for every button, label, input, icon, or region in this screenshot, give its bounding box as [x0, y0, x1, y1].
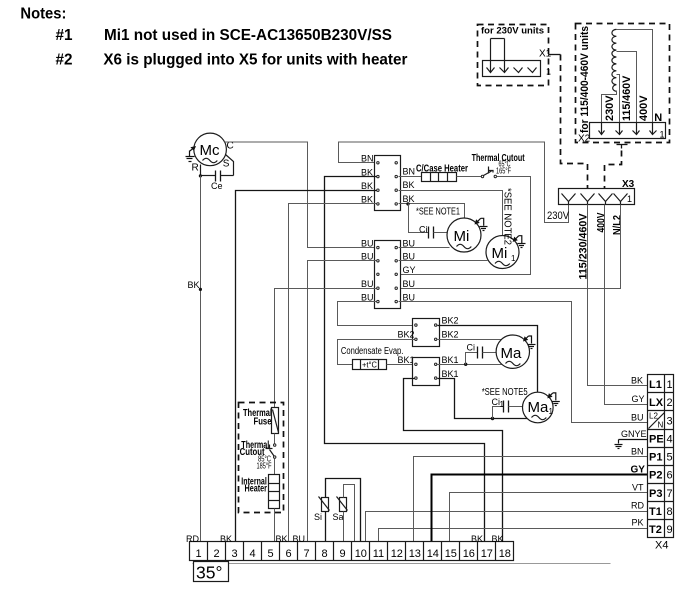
wire 230V supply (X3 pin1 to BN row1) — [339, 142, 569, 223]
svg-text:12: 12 — [391, 548, 403, 560]
wire cutout to heater — [274, 459, 276, 475]
wire BK1 row2 to Ma1 — [438, 379, 528, 419]
wire BU row2 to terminal 7 — [308, 261, 377, 542]
wire X3 pin2 to X4 L1 (BK) — [588, 205, 648, 386]
svg-text:5: 5 — [667, 452, 673, 464]
svg-text:Fuse: Fuse — [254, 416, 272, 427]
sensor Sa — [333, 497, 348, 523]
svg-text:BK: BK — [403, 180, 415, 190]
wire BU row2 to Mi1 — [399, 260, 488, 262]
svg-text:for 230V units: for 230V units — [481, 26, 544, 36]
svg-text:BK: BK — [361, 167, 373, 177]
dashed wire X2 to X3 — [605, 151, 622, 189]
svg-text:LX: LX — [649, 397, 664, 409]
svg-text:230V: 230V — [547, 210, 570, 222]
svg-text:1: 1 — [660, 129, 665, 139]
svg-text:10: 10 — [355, 548, 367, 560]
transformer tap 115/460V — [617, 75, 620, 131]
wire junction to Ci — [466, 353, 478, 365]
wire Ci to Ma — [483, 352, 497, 354]
Mc ground — [186, 147, 196, 162]
Ma ground — [524, 336, 536, 349]
svg-text:BK: BK — [631, 376, 643, 386]
svg-text:RD: RD — [186, 534, 199, 544]
svg-text:3: 3 — [232, 548, 238, 560]
junction BK row4 — [406, 202, 409, 205]
wire BK2 row2 to thermostat — [338, 340, 415, 365]
thermal cutout switch 65C — [472, 153, 525, 178]
connector block BK2 — [413, 319, 440, 347]
svg-text:*SEE NOTE2: *SEE NOTE2 — [502, 188, 513, 245]
svg-text:BN: BN — [361, 154, 374, 164]
connector X3 — [559, 179, 635, 205]
wire fuse to cutout — [274, 434, 276, 444]
wire BU row5 to X4 L2/N — [399, 302, 648, 423]
capacitor Ci (Ma) — [467, 343, 483, 359]
svg-text:Notes:: Notes: — [20, 5, 66, 22]
svg-text:S: S — [223, 159, 230, 170]
svg-text:9: 9 — [340, 548, 346, 560]
wire BK row2 to terminal 17 — [325, 177, 485, 542]
wire BN to X4 P1 — [414, 457, 648, 542]
connector X2 — [590, 123, 666, 140]
svg-text:115/460V: 115/460V — [621, 75, 633, 121]
svg-text:X2: X2 — [578, 134, 591, 145]
svg-text:185°F: 185°F — [257, 462, 272, 471]
svg-text:+t°C: +t°C — [362, 361, 377, 370]
svg-text:BK: BK — [276, 534, 288, 544]
svg-text:X4: X4 — [655, 540, 668, 552]
transformer coil — [612, 29, 617, 91]
junction Ci1 — [491, 417, 494, 420]
svg-text:BK1: BK1 — [442, 355, 459, 365]
svg-text:R: R — [192, 163, 199, 174]
Mc S terminal outline — [226, 155, 234, 176]
svg-text:T2: T2 — [649, 524, 662, 536]
svg-text:L1: L1 — [649, 379, 662, 391]
svg-text:BK: BK — [361, 181, 373, 191]
connector block BU — [375, 241, 401, 309]
wire BN row2 to case heater — [399, 176, 422, 178]
svg-text:400V: 400V — [638, 95, 650, 121]
dashed box internal heater — [239, 403, 284, 513]
capacitor Ci1 — [492, 397, 509, 413]
wire X1 to dashed drop — [549, 54, 561, 56]
svg-text:Sa: Sa — [333, 512, 344, 522]
motor Mc — [194, 133, 227, 166]
svg-text:GNYE: GNYE — [621, 429, 647, 439]
svg-text:1: 1 — [511, 254, 516, 263]
wire BU row1 to Mi — [399, 247, 450, 249]
wire cutout to GY row3 — [399, 177, 531, 275]
label 35 degrees — [194, 562, 229, 583]
wire X3 pin3 to X4 LX (GY) — [605, 205, 648, 405]
svg-text:Ci: Ci — [467, 343, 476, 353]
svg-text:BK2: BK2 — [398, 330, 415, 340]
svg-text:BN: BN — [403, 166, 416, 176]
dashed box "for 115/400-460V units" — [576, 24, 670, 143]
wire BK1 row2 left to terminal 18 — [404, 379, 503, 542]
X2 plug T mark — [617, 144, 628, 146]
svg-text:N/L2: N/L2 — [611, 215, 623, 235]
wire BK row4 to terminal 6 — [289, 204, 377, 542]
svg-text:7: 7 — [304, 548, 310, 560]
svg-text:1: 1 — [549, 407, 554, 416]
svg-text:35°: 35° — [196, 563, 222, 583]
svg-text:Si: Si — [314, 512, 322, 522]
wire BK2 row1 to Ma1 — [438, 326, 538, 393]
thermal cutout 85C — [240, 440, 276, 471]
svg-text:6: 6 — [667, 470, 673, 482]
svg-text:RD: RD — [631, 501, 644, 511]
wire BU row4 left to thermal fuse — [275, 289, 377, 408]
wire Mc C to BU row1 — [225, 142, 377, 248]
svg-text:1: 1 — [196, 548, 202, 560]
wire PK to X4 T2 — [379, 529, 648, 542]
svg-text:2: 2 — [667, 397, 673, 409]
svg-text:9: 9 — [667, 524, 673, 536]
wire Ci1 to Ma1 — [509, 406, 523, 408]
wire BK row4 to Mi top — [399, 204, 465, 219]
heater C/Case Heater — [416, 163, 468, 181]
svg-text:1: 1 — [627, 194, 632, 204]
transformer tap 230V — [602, 91, 617, 131]
svg-text:Mi: Mi — [492, 245, 508, 262]
motor Mi — [447, 218, 481, 252]
svg-text:1: 1 — [667, 379, 673, 391]
svg-text:8: 8 — [322, 548, 328, 560]
svg-text:P1: P1 — [649, 452, 662, 464]
svg-text:6: 6 — [286, 548, 292, 560]
svg-text:16: 16 — [463, 548, 475, 560]
svg-text:PE: PE — [649, 434, 664, 446]
wire BK row3 to terminal 3 — [236, 191, 377, 542]
svg-text:BU: BU — [631, 413, 644, 423]
junction BK marker — [199, 288, 202, 291]
svg-text:BN: BN — [631, 447, 644, 457]
svg-text:VT: VT — [632, 482, 644, 492]
svg-text:Heater: Heater — [245, 484, 268, 495]
svg-text:BK2: BK2 — [442, 316, 459, 326]
Ma1 ground — [548, 393, 560, 406]
wire BK row3 to Mi1 — [399, 191, 503, 236]
svg-text:Ci: Ci — [419, 225, 428, 235]
svg-text:Ce: Ce — [211, 181, 223, 191]
svg-text:BU: BU — [403, 238, 416, 248]
wire BK1 row1 to Ma — [438, 364, 502, 366]
svg-text:BK1: BK1 — [442, 369, 459, 379]
wire Sa top to terminal 10 — [344, 485, 355, 542]
transformer tap N — [617, 30, 653, 131]
wire Sa bottom to terminal 9 — [343, 512, 345, 542]
svg-text:1: 1 — [546, 67, 551, 77]
svg-text:BU: BU — [293, 534, 306, 544]
svg-text:18: 18 — [499, 548, 511, 560]
terminal strip X5 — [190, 542, 514, 561]
svg-text:230V: 230V — [604, 95, 616, 121]
internal heater R — [241, 475, 279, 509]
svg-text:17: 17 — [481, 548, 493, 560]
svg-text:N: N — [654, 112, 662, 124]
motor Mi1 — [486, 236, 519, 269]
svg-text:4: 4 — [667, 434, 673, 446]
wire heater to terminal 5 — [274, 509, 276, 542]
wire Ci to Mi — [434, 232, 448, 234]
svg-text:N: N — [658, 421, 664, 430]
svg-text:BK: BK — [188, 280, 200, 290]
svg-text:3: 3 — [667, 415, 673, 427]
svg-text:*SEE NOTE1: *SEE NOTE1 — [416, 207, 460, 218]
svg-text:BU: BU — [403, 292, 416, 302]
wire thermostat to BK1 row1 — [387, 364, 415, 366]
svg-text:BU: BU — [361, 238, 374, 248]
sensor Si — [314, 497, 330, 523]
bottom faint line — [193, 563, 611, 565]
svg-text:P2: P2 — [649, 470, 662, 482]
svg-text:BU: BU — [361, 292, 374, 302]
junction Ci/Ma — [464, 363, 467, 366]
wire junction to Ci1 — [493, 407, 504, 419]
svg-text:T1: T1 — [649, 506, 662, 518]
transformer tap 400V — [617, 52, 637, 131]
svg-text:Ma: Ma — [501, 345, 522, 362]
thermal fuse F — [272, 408, 279, 434]
svg-text:GY: GY — [403, 265, 416, 275]
wire Si top to terminal 10 — [326, 479, 361, 542]
capacitor Ce — [215, 171, 217, 182]
svg-text:BK2: BK2 — [442, 330, 459, 340]
wire BK2 row2 to Ma — [438, 339, 503, 341]
wire VT to X4 P3 — [450, 493, 648, 542]
connector block BK1 — [413, 358, 440, 386]
dashed box "for 230V units" — [478, 25, 549, 86]
connector X1 — [483, 39, 552, 77]
svg-text:GY: GY — [632, 394, 645, 404]
svg-text:15: 15 — [445, 548, 457, 560]
ground GNYE — [615, 440, 648, 449]
svg-text:P3: P3 — [649, 488, 662, 500]
capacitor Ci — [419, 225, 434, 239]
wire heater to thermal cutout — [457, 176, 482, 178]
svg-text:Mc: Mc — [200, 142, 220, 159]
connector X4 — [648, 375, 674, 552]
svg-text:PK: PK — [632, 518, 644, 528]
svg-text:for 115/400-460V units: for 115/400-460V units — [579, 26, 591, 133]
motor Ma — [496, 335, 529, 368]
svg-text:BK: BK — [220, 534, 232, 544]
svg-text:165°F: 165°F — [496, 166, 511, 175]
wire Mc R-S bottom — [201, 175, 216, 177]
svg-text:*SEE NOTE5: *SEE NOTE5 — [482, 387, 528, 398]
wire Mc R to terminal 1 — [200, 176, 202, 542]
svg-text:BU: BU — [361, 279, 374, 289]
wire junction to capacitor Ci — [409, 204, 429, 233]
svg-text:Condensate Evap.: Condensate Evap. — [341, 346, 404, 357]
svg-text:400V: 400V — [595, 212, 607, 233]
svg-text:C/Case Heater: C/Case Heater — [416, 163, 468, 174]
svg-text:2: 2 — [214, 548, 220, 560]
svg-text:X6 is plugged into X5 for unit: X6 is plugged into X5 for units with hea… — [103, 52, 407, 69]
Mi ground — [475, 218, 487, 230]
svg-text:Ma: Ma — [528, 399, 549, 416]
thermostat +t°C — [353, 360, 387, 370]
svg-text:1: 1 — [500, 400, 505, 409]
svg-text:4: 4 — [250, 548, 256, 560]
wire Si bottom to terminal 8 — [325, 512, 327, 542]
svg-text:GY: GY — [631, 464, 646, 475]
svg-text:BU: BU — [403, 279, 416, 289]
svg-text:11: 11 — [373, 548, 384, 560]
svg-text:#2: #2 — [56, 52, 73, 69]
connector block upper (BN/BK) — [375, 156, 401, 211]
svg-text:14: 14 — [427, 548, 439, 560]
svg-text:Mi1 not used in SCE-AC13650B23: Mi1 not used in SCE-AC13650B230V/SS — [104, 27, 392, 44]
svg-text:8: 8 — [667, 506, 673, 518]
dashed wire X1 to X3 — [561, 55, 588, 189]
wire RD to X4 T1 — [366, 512, 648, 542]
svg-text:#1: #1 — [56, 27, 73, 44]
wire GY thick to X4 P2 — [432, 475, 648, 542]
svg-text:BK: BK — [492, 534, 504, 544]
svg-text:13: 13 — [409, 548, 421, 560]
motor Ma1 — [523, 392, 554, 423]
junction R — [199, 174, 202, 177]
svg-text:7: 7 — [667, 488, 673, 500]
svg-text:X3: X3 — [622, 179, 635, 190]
svg-text:BK: BK — [471, 534, 483, 544]
wire X3 pin4 N/L2 to BU row4 — [397, 205, 621, 289]
wire BU row5 left to BK2 row1 — [338, 302, 415, 326]
svg-text:5: 5 — [268, 548, 274, 560]
svg-text:Mi: Mi — [454, 228, 470, 245]
Mi1 ground — [514, 236, 526, 248]
